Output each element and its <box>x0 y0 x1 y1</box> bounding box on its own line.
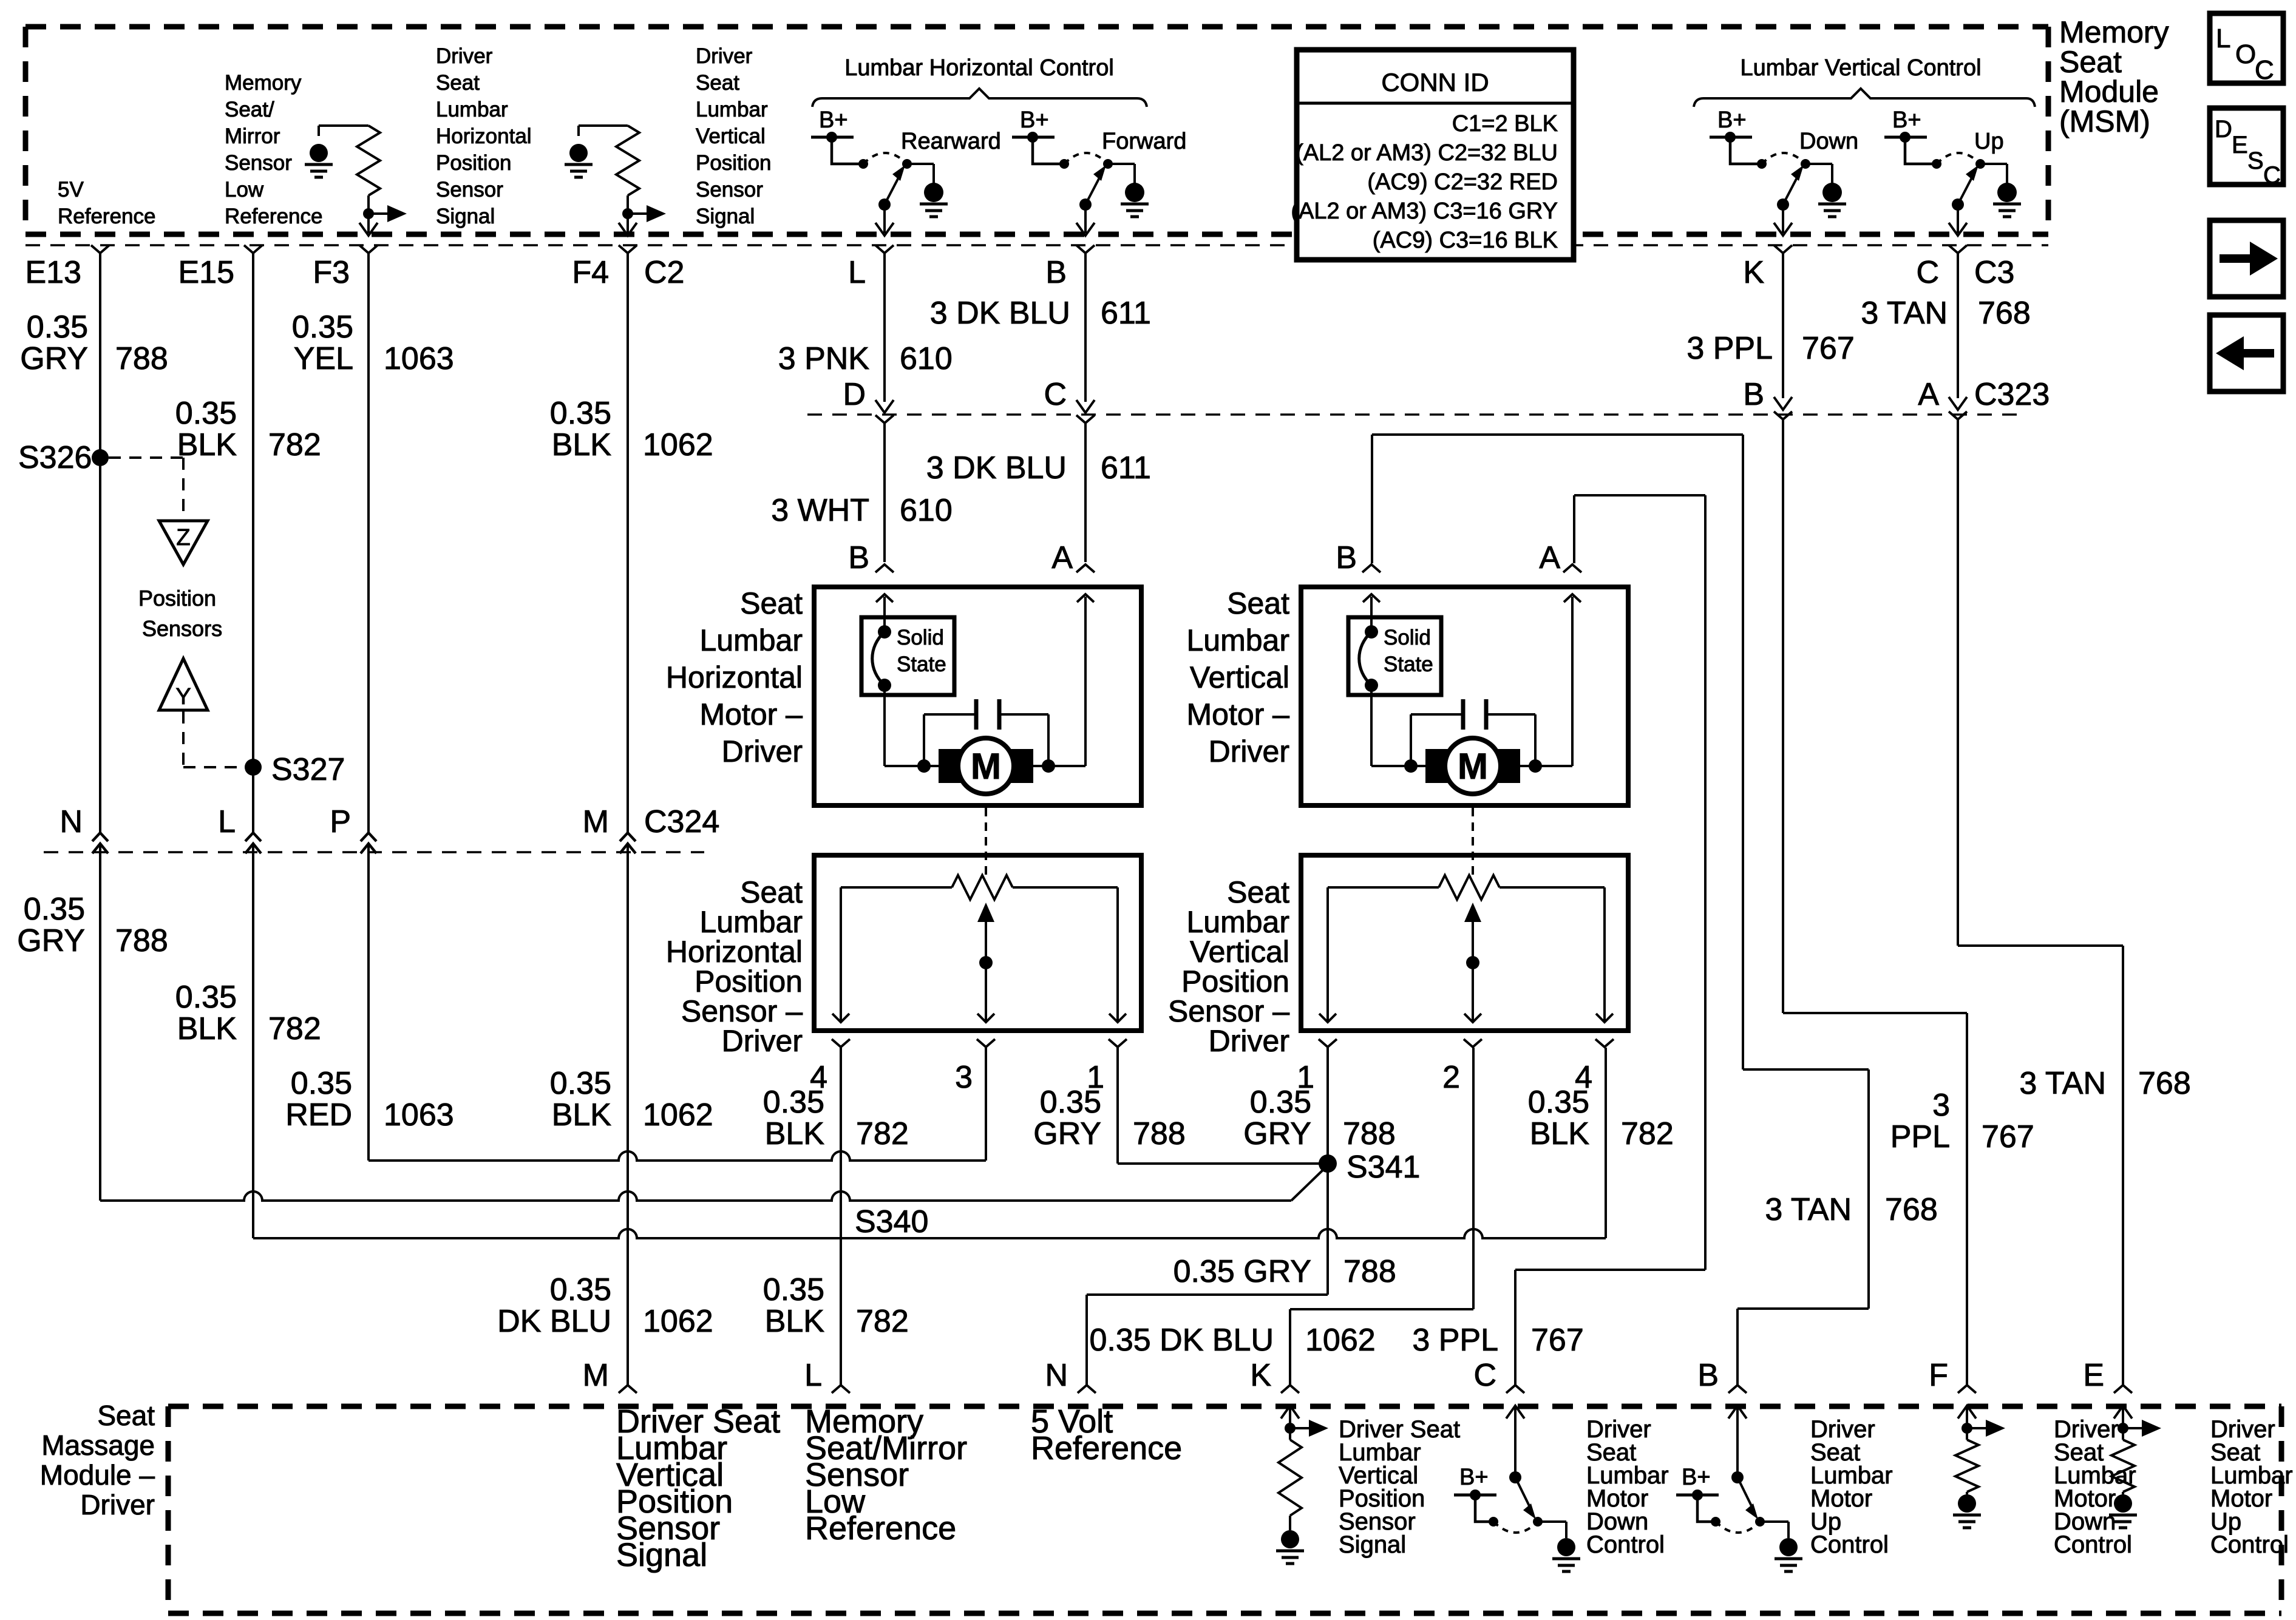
svg-text:0.35: 0.35 <box>763 1272 824 1307</box>
svg-text:Seat: Seat <box>2059 45 2122 79</box>
svg-text:E13: E13 <box>25 255 81 290</box>
svg-text:782: 782 <box>1621 1116 1674 1151</box>
svg-text:610: 610 <box>900 493 953 528</box>
svg-text:Seat: Seat <box>436 71 480 95</box>
svg-text:0.35: 0.35 <box>550 1066 611 1101</box>
svg-text:1062: 1062 <box>643 1097 713 1133</box>
svg-text:0.35: 0.35 <box>763 1085 824 1120</box>
svg-text:Up: Up <box>1974 129 2004 154</box>
svg-text:767: 767 <box>1982 1119 2034 1154</box>
svg-text:D: D <box>843 377 866 412</box>
svg-text:N: N <box>1045 1358 1068 1393</box>
svg-text:O: O <box>2235 39 2256 69</box>
svg-text:768: 768 <box>1978 296 2031 331</box>
svg-text:Solid: Solid <box>897 626 944 649</box>
svg-text:F3: F3 <box>313 255 350 290</box>
svg-text:K: K <box>1250 1358 1271 1393</box>
svg-text:C: C <box>2263 162 2281 189</box>
svg-text:Z: Z <box>176 525 190 551</box>
svg-text:Seat: Seat <box>740 875 803 909</box>
svg-text:E15: E15 <box>178 255 234 290</box>
svg-text:DK BLU: DK BLU <box>497 1304 611 1339</box>
svg-text:B+: B+ <box>1892 107 1921 133</box>
svg-text:M: M <box>971 746 1001 787</box>
svg-text:Lumbar: Lumbar <box>699 905 803 939</box>
svg-text:0.35: 0.35 <box>175 980 237 1015</box>
svg-text:C2: C2 <box>644 255 684 290</box>
svg-text:Position: Position <box>436 151 512 175</box>
svg-text:GRY: GRY <box>20 341 88 376</box>
svg-text:K: K <box>1743 255 1764 290</box>
svg-text:B: B <box>1336 540 1357 575</box>
svg-text:L: L <box>2216 24 2230 53</box>
svg-text:Sensor: Sensor <box>225 151 292 175</box>
svg-text:3 PPL: 3 PPL <box>1412 1323 1498 1358</box>
svg-text:N: N <box>59 804 83 839</box>
svg-text:Memory: Memory <box>225 71 302 95</box>
svg-text:C3: C3 <box>1974 255 2014 290</box>
svg-text:0.35: 0.35 <box>550 396 611 431</box>
svg-text:Lumbar: Lumbar <box>436 98 508 121</box>
svg-text:YEL: YEL <box>294 341 353 376</box>
svg-text:Control: Control <box>2210 1531 2289 1558</box>
svg-text:L: L <box>804 1358 822 1393</box>
svg-text:767: 767 <box>1802 331 1855 366</box>
svg-text:State: State <box>897 652 946 676</box>
svg-text:768: 768 <box>1885 1192 1938 1227</box>
svg-text:BLK: BLK <box>177 427 237 463</box>
svg-text:C: C <box>1473 1358 1496 1393</box>
svg-text:S341: S341 <box>1347 1150 1420 1185</box>
svg-text:Lumbar: Lumbar <box>696 98 768 121</box>
svg-text:B: B <box>1697 1358 1719 1393</box>
svg-text:Reference: Reference <box>805 1510 956 1547</box>
svg-text:3 WHT: 3 WHT <box>771 493 869 528</box>
svg-text:782: 782 <box>268 427 321 463</box>
svg-text:(AL2 or AM3) C3=16 GRY: (AL2 or AM3) C3=16 GRY <box>1291 198 1558 224</box>
svg-text:Position: Position <box>696 151 772 175</box>
svg-text:767: 767 <box>1531 1323 1584 1358</box>
svg-text:611: 611 <box>1101 450 1151 486</box>
svg-text:Position: Position <box>1181 964 1289 998</box>
svg-text:Massage: Massage <box>41 1429 155 1461</box>
svg-text:Solid: Solid <box>1384 626 1431 649</box>
svg-text:Control: Control <box>1586 1531 1665 1558</box>
svg-text:B: B <box>1045 255 1067 290</box>
svg-text:Driver: Driver <box>436 44 493 68</box>
svg-text:788: 788 <box>1343 1254 1396 1289</box>
svg-text:Horizontal: Horizontal <box>666 660 803 694</box>
svg-text:Sensor –: Sensor – <box>681 994 803 1028</box>
svg-text:768: 768 <box>2138 1066 2191 1101</box>
svg-text:1062: 1062 <box>643 427 713 463</box>
svg-text:788: 788 <box>115 341 168 376</box>
svg-text:0.35: 0.35 <box>292 310 353 345</box>
svg-text:3 PPL: 3 PPL <box>1686 331 1773 366</box>
svg-text:Signal: Signal <box>436 205 495 228</box>
svg-text:788: 788 <box>115 923 168 958</box>
svg-text:BLK: BLK <box>765 1116 825 1151</box>
svg-text:2: 2 <box>1442 1060 1460 1095</box>
svg-text:Driver: Driver <box>722 1024 803 1058</box>
svg-text:Signal: Signal <box>696 205 755 228</box>
svg-text:0.35: 0.35 <box>24 892 85 927</box>
svg-text:C323: C323 <box>1974 377 2050 412</box>
svg-text:0.35: 0.35 <box>27 310 88 345</box>
svg-text:E: E <box>2232 132 2248 158</box>
svg-text:C: C <box>1044 377 1067 412</box>
svg-text:Sensor –: Sensor – <box>1168 994 1289 1028</box>
svg-text:Vertical: Vertical <box>1190 935 1289 969</box>
svg-text:F: F <box>1929 1358 1948 1393</box>
svg-text:C: C <box>1916 255 1939 290</box>
svg-text:BLK: BLK <box>552 427 612 463</box>
svg-text:BLK: BLK <box>1530 1116 1590 1151</box>
svg-text:Position: Position <box>138 586 216 611</box>
svg-text:Reference: Reference <box>225 205 322 228</box>
svg-text:1063: 1063 <box>384 1097 454 1133</box>
svg-text:C: C <box>2255 55 2274 85</box>
svg-text:Seat: Seat <box>1227 586 1289 620</box>
svg-text:Lumbar: Lumbar <box>1186 623 1289 657</box>
svg-text:0.35: 0.35 <box>1528 1085 1589 1120</box>
svg-text:782: 782 <box>268 1011 321 1046</box>
svg-text:BLK: BLK <box>552 1097 612 1133</box>
svg-text:Low: Low <box>225 178 264 202</box>
svg-text:Seat: Seat <box>696 71 739 95</box>
svg-text:1062: 1062 <box>643 1304 713 1339</box>
svg-text:S326: S326 <box>18 440 92 475</box>
svg-text:CONN ID: CONN ID <box>1381 68 1489 97</box>
svg-text:Control: Control <box>2054 1531 2132 1558</box>
svg-text:Signal: Signal <box>1339 1531 1406 1558</box>
svg-text:3: 3 <box>955 1060 973 1095</box>
svg-text:S: S <box>2247 147 2264 174</box>
svg-text:GRY: GRY <box>1033 1116 1101 1151</box>
svg-text:A: A <box>1918 377 1939 412</box>
svg-text:D: D <box>2215 116 2232 143</box>
svg-text:F4: F4 <box>572 255 609 290</box>
svg-text:Module –: Module – <box>40 1459 155 1491</box>
svg-text:Motor –: Motor – <box>1186 697 1289 731</box>
svg-text:Y: Y <box>175 684 191 710</box>
svg-text:611: 611 <box>1101 296 1151 331</box>
svg-text:Seat: Seat <box>1227 875 1289 909</box>
svg-text:GRY: GRY <box>17 923 85 958</box>
svg-text:0.35: 0.35 <box>175 396 237 431</box>
svg-text:C324: C324 <box>644 804 719 839</box>
svg-text:M: M <box>583 1358 609 1393</box>
svg-text:788: 788 <box>1343 1116 1396 1151</box>
svg-text:Memory: Memory <box>2059 15 2169 49</box>
svg-text:Driver: Driver <box>1209 1024 1289 1058</box>
svg-text:788: 788 <box>1133 1116 1186 1151</box>
svg-text:Driver: Driver <box>722 734 803 768</box>
svg-text:Sensors: Sensors <box>142 616 222 641</box>
svg-text:Lumbar Vertical Control: Lumbar Vertical Control <box>1740 55 1981 81</box>
svg-text:Driver: Driver <box>80 1489 155 1520</box>
svg-text:C1=2 BLK: C1=2 BLK <box>1452 111 1558 137</box>
svg-text:Seat: Seat <box>740 586 803 620</box>
svg-text:S327: S327 <box>271 752 345 787</box>
svg-text:Seat: Seat <box>97 1400 155 1431</box>
svg-text:0.35: 0.35 <box>1040 1085 1101 1120</box>
svg-text:Signal: Signal <box>616 1537 707 1573</box>
svg-text:M: M <box>583 804 609 839</box>
svg-text:Vertical: Vertical <box>1190 660 1289 694</box>
svg-text:Down: Down <box>1799 129 1858 154</box>
svg-text:3 TAN: 3 TAN <box>1765 1192 1852 1227</box>
svg-text:Position: Position <box>695 964 803 998</box>
svg-text:0.35: 0.35 <box>550 1272 611 1307</box>
svg-text:Control: Control <box>1810 1531 1889 1558</box>
svg-text:(AL2 or AM3) C2=32 BLU: (AL2 or AM3) C2=32 BLU <box>1296 140 1558 166</box>
svg-text:3 PNK: 3 PNK <box>778 341 870 376</box>
svg-text:L: L <box>218 804 236 839</box>
svg-text:3 DK BLU: 3 DK BLU <box>926 450 1067 486</box>
svg-text:M: M <box>1458 746 1488 787</box>
svg-text:1063: 1063 <box>384 341 454 376</box>
svg-text:782: 782 <box>856 1304 909 1339</box>
svg-text:(MSM): (MSM) <box>2059 104 2150 138</box>
svg-text:Reference: Reference <box>58 205 155 228</box>
svg-text:Lumbar Horizontal Control: Lumbar Horizontal Control <box>844 55 1114 81</box>
svg-text:Horizontal: Horizontal <box>666 935 803 969</box>
svg-text:A: A <box>1539 540 1560 575</box>
svg-text:S340: S340 <box>855 1204 928 1239</box>
svg-text:Driver: Driver <box>1209 734 1289 768</box>
svg-text:Driver: Driver <box>696 44 753 68</box>
svg-text:Vertical: Vertical <box>696 124 766 148</box>
svg-text:0.35: 0.35 <box>291 1066 352 1101</box>
svg-text:0.35 DK BLU: 0.35 DK BLU <box>1090 1323 1274 1358</box>
svg-text:610: 610 <box>900 341 953 376</box>
svg-text:Lumbar: Lumbar <box>699 623 803 657</box>
svg-text:B: B <box>848 540 869 575</box>
svg-text:B+: B+ <box>819 107 848 133</box>
svg-text:Seat/: Seat/ <box>225 98 274 121</box>
svg-text:1062: 1062 <box>1305 1323 1376 1358</box>
svg-text:L: L <box>848 255 866 290</box>
svg-text:B: B <box>1743 377 1764 412</box>
svg-text:RED: RED <box>285 1097 352 1133</box>
svg-text:782: 782 <box>856 1116 909 1151</box>
svg-text:A: A <box>1051 540 1073 575</box>
svg-text:P: P <box>330 804 351 839</box>
svg-text:(AC9) C2=32 RED: (AC9) C2=32 RED <box>1367 169 1558 195</box>
svg-text:5V: 5V <box>58 178 84 202</box>
svg-text:B+: B+ <box>1717 107 1747 133</box>
svg-text:Lumbar: Lumbar <box>1186 905 1289 939</box>
svg-text:Reference: Reference <box>1031 1430 1182 1466</box>
svg-text:B+: B+ <box>1459 1465 1489 1490</box>
svg-text:B+: B+ <box>1020 107 1049 133</box>
svg-text:PPL: PPL <box>1890 1119 1950 1154</box>
svg-text:Sensor: Sensor <box>696 178 763 202</box>
svg-text:BLK: BLK <box>765 1304 825 1339</box>
svg-text:B+: B+ <box>1682 1465 1711 1490</box>
svg-text:(AC9) C3=16 BLK: (AC9) C3=16 BLK <box>1373 228 1558 253</box>
svg-text:3: 3 <box>1932 1088 1950 1123</box>
svg-text:Mirror: Mirror <box>225 124 280 148</box>
svg-text:Sensor: Sensor <box>436 178 503 202</box>
svg-text:E: E <box>2083 1358 2104 1393</box>
svg-text:Motor –: Motor – <box>699 697 803 731</box>
svg-text:State: State <box>1384 652 1433 676</box>
svg-text:Module: Module <box>2059 75 2159 109</box>
svg-text:Horizontal: Horizontal <box>436 124 532 148</box>
svg-text:Forward: Forward <box>1102 129 1186 154</box>
svg-text:GRY: GRY <box>1243 1116 1311 1151</box>
svg-text:Rearward: Rearward <box>901 129 1001 154</box>
svg-text:BLK: BLK <box>177 1011 237 1046</box>
svg-text:0.35: 0.35 <box>1250 1085 1311 1120</box>
svg-text:3 TAN: 3 TAN <box>1861 296 1948 331</box>
svg-text:3 DK BLU: 3 DK BLU <box>930 296 1070 331</box>
svg-text:3 TAN: 3 TAN <box>2019 1066 2106 1101</box>
svg-text:0.35 GRY: 0.35 GRY <box>1173 1254 1311 1289</box>
